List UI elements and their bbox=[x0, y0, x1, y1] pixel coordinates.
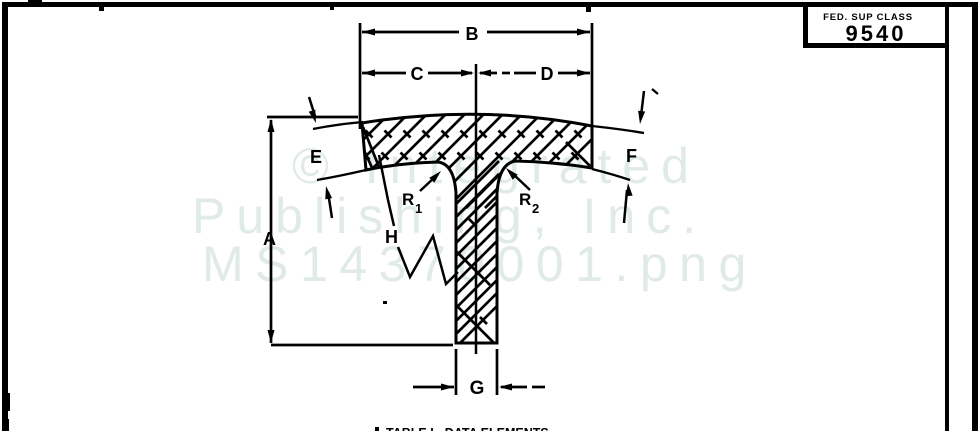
H leader upper bbox=[379, 155, 394, 226]
svg-text:E: E bbox=[310, 147, 322, 167]
top border tick 2 bbox=[330, 7, 334, 10]
T-section outline bbox=[362, 114, 592, 343]
E upper arrow bbox=[309, 97, 315, 116]
svg-text:A: A bbox=[263, 229, 276, 249]
svg-text:C: C bbox=[411, 64, 424, 84]
dimension line G right bbox=[499, 384, 512, 391]
dimension line C bbox=[362, 72, 406, 75]
frame top border bbox=[2, 2, 977, 7]
R1 leader bbox=[420, 176, 436, 191]
F lower extension curve bbox=[592, 169, 630, 180]
E lower extension curve bbox=[317, 170, 366, 180]
svg-text:R: R bbox=[402, 190, 414, 209]
dimension A top extension line bbox=[267, 116, 358, 119]
svg-text:9540: 9540 bbox=[846, 21, 907, 46]
F upper arrow bbox=[641, 91, 644, 116]
frame left border bbox=[2, 2, 8, 431]
G extension line left bbox=[455, 349, 458, 395]
F upper extension curve bbox=[592, 126, 644, 133]
top border tick 3 bbox=[586, 7, 591, 12]
section hatching bbox=[257, 101, 630, 347]
title box bottom edge bbox=[803, 43, 949, 48]
svg-text:D: D bbox=[541, 64, 554, 84]
dimension A bottom extension line bbox=[271, 344, 453, 347]
top border tick 1 bbox=[99, 7, 104, 11]
svg-text:R: R bbox=[519, 190, 531, 209]
H zigzag bbox=[398, 236, 458, 284]
frame right inner line bbox=[945, 5, 949, 431]
svg-text:2: 2 bbox=[532, 201, 539, 216]
top border notch bbox=[28, 0, 42, 3]
speck bbox=[383, 301, 387, 304]
dimension line D bbox=[478, 70, 491, 77]
center line bbox=[475, 64, 478, 354]
dimension line A bbox=[270, 120, 273, 343]
svg-text:F: F bbox=[626, 146, 637, 166]
speck 2 bbox=[375, 427, 379, 431]
dimension B extension line left bbox=[359, 23, 362, 129]
frame right outer border bbox=[972, 2, 978, 431]
svg-text:© Integrated: © Integrated bbox=[292, 138, 700, 194]
E lower arrow bbox=[325, 186, 332, 199]
F lower arrow bbox=[626, 183, 633, 196]
svg-text:B: B bbox=[466, 24, 479, 44]
svg-text:H: H bbox=[385, 227, 398, 247]
svg-text:G: G bbox=[470, 378, 485, 399]
title box left edge bbox=[803, 6, 808, 47]
E upper extension curve bbox=[313, 122, 363, 129]
svg-text:1: 1 bbox=[415, 201, 422, 216]
F stray tick bbox=[652, 89, 658, 94]
dimension B extension line right bbox=[591, 23, 594, 127]
G extension line right bbox=[496, 349, 499, 395]
svg-text:TABLE I - DATA ELEMENTS: TABLE I - DATA ELEMENTS bbox=[386, 426, 549, 431]
left border bump 2 bbox=[7, 419, 9, 431]
R2 leader bbox=[512, 173, 530, 190]
dimension line B bbox=[362, 31, 459, 34]
dimension line G left bbox=[413, 386, 454, 389]
left border bump 1 bbox=[7, 393, 10, 411]
